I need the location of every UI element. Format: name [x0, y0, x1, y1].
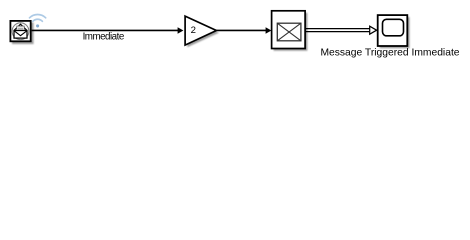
label Immediate	[83, 31, 125, 42]
Message Triggered Subsystem body	[378, 15, 408, 46]
Send block shadow	[274, 13, 308, 51]
message line open arrowhead	[370, 26, 377, 34]
Send block body	[272, 11, 306, 49]
message source icon: open envelope flap	[14, 24, 27, 30]
svg-text:Message Triggered Immediate: Message Triggered Immediate	[320, 47, 459, 58]
message line (double) top	[305, 28, 370, 30]
Send icon: envelope	[277, 23, 301, 41]
label Message Triggered Immediate	[320, 47, 459, 58]
gain block triangle	[185, 16, 216, 45]
message source block (chart) shadow	[12, 23, 34, 45]
signal logging badge inner arc	[33, 19, 43, 21]
message source icon: circle	[12, 23, 29, 40]
svg-text:Immediate: Immediate	[83, 31, 125, 42]
message source icon: letter	[17, 26, 24, 32]
wire: gain to Send	[216, 29, 266, 31]
gain value 2	[191, 25, 196, 36]
message source block (chart) body	[10, 21, 30, 41]
Message Triggered Subsystem shadow	[380, 17, 410, 48]
signal logging badge outer arc	[30, 14, 46, 17]
arrowhead into gain	[178, 27, 184, 34]
wire: source to gain	[32, 29, 179, 31]
message source icon: envelope body	[14, 31, 27, 39]
subsystem icon: rounded rect	[383, 19, 404, 36]
signal logging badge (wifi) dot	[36, 24, 39, 27]
gain block shadow	[187, 18, 219, 47]
message line (double) bottom	[305, 31, 370, 33]
arrowhead into Send	[266, 27, 272, 34]
svg-text:2: 2	[191, 25, 196, 36]
